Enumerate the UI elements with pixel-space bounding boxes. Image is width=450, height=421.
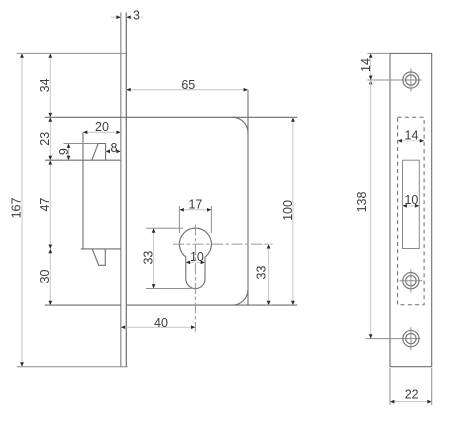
lock body bottom edge left of faceplate — [45, 304, 121, 306]
follower box bottom edge — [81, 248, 121, 250]
dim 167 overall height — [10, 53, 24, 366]
lock body right edge with extension to 65 dim — [247, 90, 249, 305]
strike plate outline — [390, 53, 432, 366]
svg-text:23: 23 — [38, 132, 52, 146]
dim 3 faceplate thickness — [111, 8, 143, 22]
screw hole bottom — [403, 327, 419, 350]
follower box top edge / latch platform with extension — [45, 159, 121, 161]
screw hole middle — [400, 269, 423, 292]
extension line through bottom hole center — [366, 338, 421, 340]
euro cylinder profile — [179, 228, 211, 289]
cylinder vertical centerline — [194, 225, 196, 332]
dim 33 cylinder center to body bottom — [254, 244, 270, 305]
dim 40 backset — [121, 316, 196, 330]
lock body bottom edge with right extension — [126, 304, 297, 306]
dim 33 cylinder profile height — [141, 228, 191, 288]
svg-text:138: 138 — [355, 192, 369, 213]
dim 65 body width — [126, 78, 248, 92]
lock body top edge with extensions — [45, 116, 297, 118]
svg-text:14: 14 — [405, 129, 419, 143]
plate top edge extension — [368, 52, 391, 54]
hidden lock body outline dashed — [398, 117, 425, 304]
svg-text:33: 33 — [254, 266, 268, 280]
dim 10 cutout width — [403, 193, 420, 208]
svg-text:33: 33 — [141, 251, 155, 265]
svg-text:65: 65 — [181, 78, 195, 92]
screw hole top — [403, 69, 419, 92]
svg-text:167: 167 — [10, 198, 24, 219]
dim 8 — [106, 141, 121, 155]
svg-text:34: 34 — [38, 78, 52, 92]
dim 22 plate width — [390, 368, 432, 405]
dim 17 cylinder bore — [179, 198, 211, 233]
extension line at latch top for 9 dim — [64, 143, 99, 145]
svg-text:100: 100 — [281, 200, 295, 221]
dim 20 — [83, 120, 121, 134]
dim 9 — [57, 144, 71, 161]
svg-text:30: 30 — [38, 270, 52, 284]
dim 10 cylinder slot width — [186, 250, 205, 264]
faceplate top edge / extension line — [17, 52, 126, 54]
stacked dimension line 34/23/47/30 — [48, 53, 52, 305]
svg-text:17: 17 — [188, 198, 202, 212]
extension line through top hole center — [368, 79, 422, 81]
lock body rounded corner top-right — [232, 117, 248, 133]
dim 14 hidden body width — [398, 129, 425, 143]
svg-text:14: 14 — [359, 58, 373, 72]
latch bolt upper trapezoid — [92, 144, 106, 161]
faceplate cutout rectangle — [403, 160, 420, 248]
lock body rounded corner bottom-right — [232, 290, 248, 306]
svg-text:9: 9 — [57, 148, 71, 155]
svg-text:40: 40 — [154, 316, 168, 330]
dim 138 hole spacing — [355, 76, 373, 339]
svg-text:22: 22 — [405, 388, 419, 402]
faceplate bottom edge / extension line — [17, 366, 128, 368]
svg-text:47: 47 — [38, 198, 52, 212]
faceplate right edge with extension above — [125, 12, 127, 366]
dim 100 body height — [281, 117, 295, 305]
follower box left edge with extension to 20 dim — [82, 132, 84, 249]
cylinder horizontal centerline — [173, 243, 273, 245]
faceplate left edge with extension above — [120, 12, 122, 366]
svg-text:20: 20 — [95, 120, 109, 134]
deadbolt lower trapezoid — [92, 249, 105, 265]
dim 14 plate top to hole — [359, 53, 373, 84]
svg-text:3: 3 — [133, 8, 140, 22]
